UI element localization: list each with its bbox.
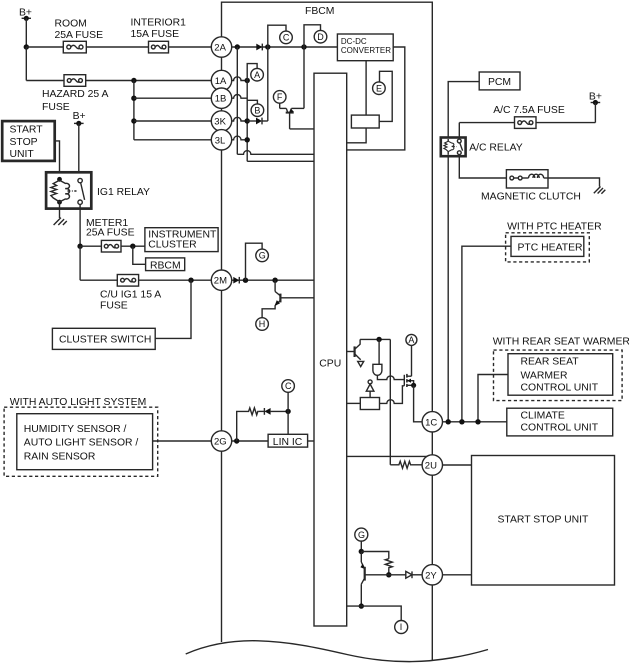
wire start stop unit to IG1 relay coil: [55, 141, 60, 179]
svg-text:CONVERTER: CONVERTER: [341, 46, 391, 55]
wire 2G-a up and across: [237, 411, 248, 441]
wire 3L row with hop: [232, 136, 248, 140]
pin 3K: [211, 111, 231, 131]
node B: [251, 104, 264, 117]
svg-text:B: B: [254, 105, 260, 115]
wire sensor to pin 2G: [153, 440, 212, 442]
A/C RELAY: [441, 138, 466, 157]
svg-text:FBCM: FBCM: [305, 6, 334, 17]
wire B+ down: [25, 18, 27, 47]
driver symbol (U shape): [373, 364, 382, 375]
wire node up to C: [287, 392, 289, 411]
node 2A-c: [301, 44, 306, 49]
wire 2A row inside FBCM: [232, 46, 338, 48]
wire pin 2U to start stop unit: [443, 464, 472, 466]
FBCM module box: [222, 2, 433, 660]
wire node down to LIN IC: [287, 411, 289, 434]
node 1B branch: [131, 96, 136, 101]
PTC HEATER box: [511, 236, 584, 256]
node D: [314, 30, 327, 43]
svg-text:START: START: [10, 125, 44, 136]
svg-text:FUSE: FUSE: [100, 301, 128, 312]
svg-text:25A FUSE: 25A FUSE: [86, 228, 135, 239]
transistor Q1 (FBCM input): [280, 103, 314, 129]
START STOP UNIT box (right): [472, 456, 615, 586]
wire 3L branch to CPU: [247, 160, 314, 162]
svg-text:1A: 1A: [215, 76, 227, 87]
auto light system dashed box: [4, 407, 158, 476]
REAR SEAT WARMER CONTROL UNIT box: [508, 354, 613, 396]
wire bracket to node C: [268, 25, 286, 47]
pin 2M: [211, 270, 231, 290]
CPU box: [314, 73, 347, 626]
MAGNETIC CLUTCH box: [481, 170, 581, 203]
wire relay coil down to 1C row: [447, 156, 449, 422]
wire bracket to node D: [304, 25, 321, 47]
pin 2A: [211, 37, 231, 57]
node 3K branch: [131, 118, 136, 123]
resistor R1: [248, 408, 259, 415]
svg-text:INSTRUMENT: INSTRUMENT: [148, 229, 217, 240]
wire DC-DC bottom to coil: [365, 61, 367, 115]
svg-text:G: G: [259, 251, 266, 261]
diode on 3K row: [247, 118, 268, 125]
svg-text:AUTO LIGHT SENSOR /: AUTO LIGHT SENSOR /: [24, 438, 139, 449]
wire 1A row with hop: [232, 77, 248, 81]
wire B+ down to fuse line: [594, 103, 596, 123]
wire fuse to instrument cluster: [121, 245, 145, 247]
node 2G-a: [234, 438, 239, 443]
node E: [373, 82, 386, 95]
IG1 RELAY: [46, 172, 91, 208]
wire to HAZARD fuse: [26, 80, 64, 82]
svg-text:LIN IC: LIN IC: [273, 437, 303, 448]
node junction: [24, 44, 29, 49]
wire bracket to node G: [246, 243, 263, 280]
svg-text:WITH AUTO LIGHT SYSTEM: WITH AUTO LIGHT SYSTEM: [10, 397, 146, 408]
wire G down: [360, 541, 362, 551]
node H: [256, 318, 269, 331]
battery B+ (A/C fuse): [589, 92, 602, 105]
LIN IC box: [268, 434, 308, 448]
diode (to node C) pointing left: [264, 408, 288, 415]
svg-text:A/C 7.5A FUSE: A/C 7.5A FUSE: [493, 105, 565, 116]
START STOP UNIT (left) box: [2, 121, 55, 161]
svg-text:2U: 2U: [425, 461, 437, 472]
HUMIDITY / AUTO LIGHT / RAIN SENSOR box: [17, 414, 153, 470]
svg-text:A: A: [254, 70, 260, 80]
svg-text:WARMER: WARMER: [521, 371, 568, 382]
node 1C-b: [459, 419, 464, 424]
A/C 7.5A FUSE: [493, 105, 565, 128]
svg-text:CPU: CPU: [319, 359, 341, 370]
C/U IG1 15 A FUSE: [100, 275, 161, 312]
node on LIN branch: [285, 409, 290, 414]
svg-text:A/C RELAY: A/C RELAY: [469, 142, 523, 153]
svg-text:CONTROL UNIT: CONTROL UNIT: [521, 382, 599, 393]
svg-text:3L: 3L: [215, 135, 226, 146]
svg-text:A: A: [408, 335, 414, 345]
svg-text:RBCM: RBCM: [150, 260, 181, 271]
wire fuse to pin 2M: [139, 279, 212, 281]
wire 3K row with hop: [232, 117, 248, 121]
wire vertical from 2A-a down: [236, 47, 238, 154]
svg-text:MAGNETIC CLUTCH: MAGNETIC CLUTCH: [481, 191, 581, 202]
wire PCM to A/C relay coil: [448, 82, 479, 138]
svg-text:PTC HEATER: PTC HEATER: [518, 242, 584, 253]
svg-text:B+: B+: [73, 111, 86, 122]
svg-text:2Y: 2Y: [425, 570, 437, 581]
svg-text:INTERIOR1: INTERIOR1: [131, 17, 187, 28]
node 2Y-b: [386, 572, 391, 577]
wire resistor to diode: [259, 410, 265, 412]
wire bracket to node A: [247, 64, 257, 81]
svg-text:START STOP UNIT: START STOP UNIT: [498, 515, 589, 526]
diode at 2M: [233, 277, 239, 284]
wire 2A-c down to transistor: [303, 47, 305, 108]
svg-text:25A FUSE: 25A FUSE: [55, 30, 104, 41]
svg-text:WITH PTC HEATER: WITH PTC HEATER: [507, 222, 602, 233]
wire to pin 3L: [134, 139, 212, 141]
wire pin 2Y to start stop unit: [443, 574, 472, 576]
svg-text:CLUSTER SWITCH: CLUSTER SWITCH: [59, 335, 151, 346]
svg-text:IG1 RELAY: IG1 RELAY: [97, 187, 150, 198]
rear seat warmer dashed box: [494, 350, 623, 401]
pin 1B: [211, 88, 231, 108]
wire coil to ground: [59, 202, 61, 218]
wire fuse line down to relay contact: [458, 123, 460, 139]
node 2A-a: [235, 44, 240, 49]
wire clutch to ground: [548, 178, 600, 187]
svg-text:RAIN SENSOR: RAIN SENSOR: [24, 451, 96, 462]
METER1 25A FUSE: [86, 218, 135, 252]
wire hazard fuse to pin 1A: [86, 80, 212, 82]
svg-text:WITH REAR SEAT WARMER: WITH REAR SEAT WARMER: [493, 337, 629, 348]
svg-text:C: C: [283, 33, 290, 43]
pin 2U: [422, 455, 442, 475]
wire vertical 1A node to 3L node: [246, 81, 248, 162]
wire vertical from 2A-b down to 3K diode: [267, 47, 269, 121]
hazard feed vertical: [133, 81, 135, 140]
INSTRUMENT CLUSTER box: [145, 228, 218, 252]
node I: [395, 621, 408, 634]
pin 2Y: [422, 565, 442, 585]
node on hazard feed: [131, 78, 136, 83]
svg-text:CONTROL UNIT: CONTROL UNIT: [521, 423, 599, 434]
wire pin 1C to climate control: [443, 421, 507, 423]
wire rail corner down to 2U resistor: [389, 339, 391, 464]
coil box (relay driver): [351, 115, 379, 128]
pin 2M wire to CPU: [232, 279, 315, 281]
wire fuse to fuse: [86, 46, 148, 48]
wire to pin 1B: [134, 97, 212, 99]
ground (IG1 relay): [54, 218, 67, 225]
logic box: [360, 398, 379, 410]
svg-text:STOP: STOP: [10, 137, 38, 148]
wire coil box to CPU: [347, 128, 366, 143]
node 2A-b: [265, 44, 270, 49]
wavy break line at bottom of FBCM: [186, 641, 488, 662]
ground (magnetic clutch): [594, 187, 606, 194]
wire 2A-a branch to CPU with hop: [237, 151, 314, 155]
svg-text:G: G: [358, 530, 365, 540]
wire to METER1 fuse: [80, 245, 101, 247]
node meter row: [77, 244, 82, 249]
svg-text:I: I: [400, 622, 403, 632]
node 3K: [245, 118, 250, 123]
wire MOSFET to pin 1C: [414, 385, 423, 422]
svg-text:1C: 1C: [425, 417, 437, 428]
svg-text:REAR SEAT: REAR SEAT: [521, 357, 580, 368]
node 2Y-a: [359, 549, 364, 554]
wire to ROOM fuse: [26, 46, 63, 48]
transistor Q3 (CPU output): [347, 339, 364, 366]
wire meter node down to C/U fuse row: [79, 246, 81, 280]
node 3L: [245, 137, 250, 142]
node cluster switch branch: [188, 278, 193, 283]
MOSFET Q4: [404, 345, 416, 388]
wire rear seat warmer to 1C row: [478, 375, 508, 422]
node A (MOSFET drain): [406, 334, 417, 345]
svg-text:H: H: [259, 319, 266, 329]
CLIMATE CONTROL UNIT box: [507, 408, 613, 436]
wire down to hazard row: [25, 47, 27, 81]
svg-text:CLUSTER: CLUSTER: [148, 240, 197, 251]
wire bracket to node B: [247, 100, 257, 104]
wire to pin 3K: [134, 120, 212, 122]
svg-text:2M: 2M: [214, 276, 227, 287]
wire fuse line: [459, 122, 595, 124]
DC-DC CONVERTER box: [337, 34, 393, 61]
wire CPU to logic box: [347, 402, 361, 404]
wire CPU to 2U: [347, 455, 430, 457]
HAZARD 25 A FUSE: [42, 75, 108, 113]
svg-text:D: D: [317, 32, 324, 42]
node G: [256, 249, 269, 262]
wire logic box to gate with hop: [380, 386, 405, 404]
pin 1A: [211, 70, 231, 90]
node RBCM branch: [130, 244, 135, 249]
svg-text:C/U IG1 15 A: C/U IG1 15 A: [100, 290, 161, 301]
node 2M-a: [243, 278, 248, 283]
wire LIN IC to CPU: [308, 440, 314, 442]
transistor Q5 (PNP): [360, 552, 388, 607]
svg-text:E: E: [376, 83, 382, 93]
svg-text:15A FUSE: 15A FUSE: [131, 29, 180, 40]
wire PTC heater to 1C row: [462, 246, 511, 422]
wire relay contact to magnetic clutch: [459, 155, 506, 178]
svg-text:C: C: [285, 381, 292, 391]
wire B+ to relay contact: [78, 123, 80, 178]
node 1C-a: [446, 419, 451, 424]
svg-text:3K: 3K: [214, 117, 226, 128]
pin 1C: [422, 412, 442, 432]
node on rail: [376, 337, 381, 342]
wire bracket to node E: [379, 71, 392, 121]
svg-text:HUMIDITY SENSOR /: HUMIDITY SENSOR /: [24, 424, 127, 435]
RBCM box: [146, 258, 185, 271]
transistor Q2 (2M driver): [262, 280, 314, 318]
svg-text:HAZARD 25 A: HAZARD 25 A: [42, 89, 108, 100]
svg-text:F: F: [277, 92, 283, 102]
svg-text:1B: 1B: [215, 94, 227, 105]
node 2M-b: [272, 278, 277, 283]
svg-text:2G: 2G: [214, 437, 227, 448]
wire to resistor R3: [361, 552, 389, 559]
wire to RBCM: [133, 246, 146, 264]
trigger symbol (circle+triangle): [366, 380, 374, 398]
wire relay contact to METER1 fuse row: [79, 204, 81, 246]
INTERIOR1 15A FUSE: [131, 17, 187, 53]
pin 3L: [211, 130, 231, 150]
resistor R3 (vertical): [385, 559, 392, 569]
wire DC-DC right to CPU: [347, 47, 405, 150]
svg-text:ROOM: ROOM: [55, 19, 87, 30]
resistor R2 (2U): [390, 461, 422, 468]
PCM box: [479, 72, 520, 90]
wire CPU to I: [347, 606, 402, 620]
wire resistor to node: [388, 569, 390, 575]
node G (2Y): [355, 528, 368, 541]
wire to C/U fuse: [80, 279, 117, 281]
wire 1B row with hop: [232, 95, 248, 99]
svg-text:UNIT: UNIT: [10, 149, 35, 160]
diode (2Y): [389, 571, 423, 578]
battery B+ (top left): [19, 7, 32, 21]
wire to cluster switch: [155, 280, 191, 338]
svg-text:PCM: PCM: [488, 77, 511, 88]
pin 2G wire to LIN IC: [232, 440, 269, 442]
node on I line: [359, 603, 364, 608]
node C (LIN): [282, 380, 295, 393]
node A: [251, 68, 264, 81]
node C: [280, 31, 293, 44]
node 1A: [245, 78, 250, 83]
wire driver to MOSFET gate with hop: [377, 375, 404, 379]
pin 2G: [211, 431, 231, 451]
ROOM 25A FUSE: [55, 19, 104, 53]
wire Q3 collector rail: [360, 338, 390, 340]
wire to pin 2A: [169, 46, 212, 48]
CLUSTER SWITCH box: [52, 328, 155, 349]
svg-text:FUSE: FUSE: [42, 102, 70, 113]
svg-text:CLIMATE: CLIMATE: [521, 411, 565, 422]
wire node down to driver: [378, 339, 380, 364]
diode on 2A row: [256, 44, 262, 51]
PTC heater dashed box: [506, 233, 590, 262]
svg-text:2A: 2A: [214, 43, 226, 54]
node F: [273, 91, 286, 104]
battery B+ (IG1 relay): [73, 111, 86, 126]
node 1C-c: [475, 419, 480, 424]
